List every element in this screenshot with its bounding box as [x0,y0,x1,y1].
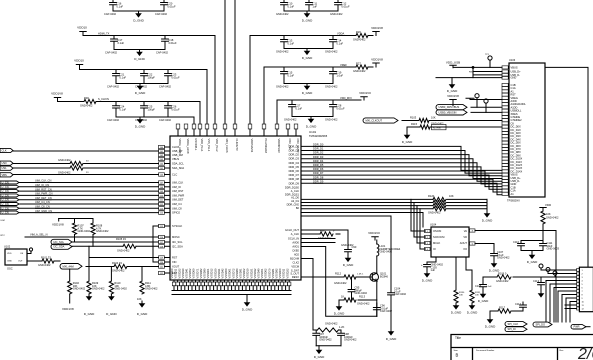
svg-text:R115: R115 [411,122,418,126]
net flag USB_DM [436,110,467,115]
ground [133,11,144,23]
svg-text:VSSD01: VSSD01 [206,268,210,279]
wire [19,182,159,184]
svg-text:UIM_GND_CN: UIM_GND_CN [35,209,52,213]
svg-text:DDR_D4: DDR_D4 [313,159,324,163]
svg-text:C112: C112 [515,302,522,306]
svg-text:D_GND: D_GND [334,312,345,316]
svg-text:C113: C113 [533,279,540,283]
svg-text:DDR_D2: DDR_D2 [313,151,324,155]
label right pins lower [285,228,300,279]
svg-text:GND-0402: GND-0402 [341,243,354,247]
wire [113,10,164,12]
resistor R27 [356,65,368,69]
svg-text:UIM_IO: UIM_IO [172,185,181,189]
capacitor C107 [491,251,498,262]
svg-text:GND-0402: GND-0402 [58,171,71,175]
capacitor C22 [141,70,148,84]
svg-text:HDMI_TX: HDMI_TX [98,31,110,35]
svg-text:R101 33: R101 33 [41,256,51,260]
wire [113,0,164,3]
pin 115 [159,224,183,228]
svg-text:S_OUT: S_OUT [290,272,299,276]
resistor R120 [433,197,446,201]
svg-text:VDDA_A1V8: VDDA_A1V8 [178,139,182,155]
svg-text:DDR_D3: DDR_D3 [313,155,324,159]
svg-text:GND-0402: GND-0402 [325,85,338,89]
resistor R102 [68,281,72,294]
capacitor C16 [110,3,117,12]
svg-text:UIM_CLK: UIM_CLK [172,181,184,185]
svg-text:GND-0402: GND-0402 [145,287,158,291]
svg-text:VSSD41: VSSD41 [185,268,189,279]
svg-text:A1_D0: A1_D0 [291,196,299,200]
wire [284,48,333,50]
svg-text:GND-0402: GND-0402 [276,50,289,54]
svg-text:DDR_DQS1: DDR_DQS1 [285,192,300,196]
svg-text:VIM_A_SEL_N: VIM_A_SEL_N [30,233,48,237]
svg-text:GPIO2: GPIO2 [172,211,180,215]
svg-text:DDR_D6: DDR_D6 [289,169,300,173]
net flag CLKOUT [0,148,13,152]
svg-text:CAP-0402: CAP-0402 [159,118,172,122]
svg-text:U_CN: U_CN [2,181,9,185]
svg-text:0.01uF: 0.01uF [169,41,177,45]
wire [116,83,168,85]
svg-text:0.1uF: 0.1uF [288,73,295,77]
svg-text:B2: B2 [296,206,300,210]
wire [13,174,159,176]
wire [301,242,335,244]
pin 117 [159,240,184,244]
svg-text:RTC: RTC [1,235,6,237]
svg-text:VDD: VDD [545,203,552,207]
net flag I2C_SDA [51,244,72,249]
wire DDR bus [301,163,502,181]
capacitor C106 [480,277,487,292]
resistor R106 [497,275,511,279]
svg-text:VDD_USB: VDD_USB [446,61,460,65]
svg-text:DDR_D2: DDR_D2 [289,153,300,157]
net flag UIM_C8_CN [0,206,19,210]
svg-text:0.1uF: 0.1uF [117,4,124,8]
svg-text:CAP-0402: CAP-0402 [380,309,393,313]
svg-text:R27: R27 [356,62,361,66]
ground [489,261,500,273]
op-amp U104 body [431,227,469,257]
svg-text:CAP-0402: CAP-0402 [105,51,118,55]
svg-text:VSS_PLL1: VSS_PLL1 [207,139,211,152]
svg-text:AOUT: AOUT [460,241,468,245]
svg-text:AD2: AD2 [294,253,300,257]
svg-text:AVD0: AVD0 [292,241,299,245]
wire DDR bus [301,175,502,189]
wire [541,269,577,271]
pin 100 [159,145,180,149]
wire tap [411,199,426,231]
svg-text:VDDMPU10: VDDMPU10 [277,139,281,154]
svg-text:VDD10: VDD10 [77,26,87,30]
ground [386,329,397,341]
resistor R131 [470,290,474,303]
svg-text:CAP-0402: CAP-0402 [155,12,168,16]
wire [570,302,577,323]
capacitor C10 [281,3,288,12]
svg-text:DDR_D0: DDR_D0 [289,144,300,148]
svg-text:GND-0402: GND-0402 [117,249,130,253]
pin 30 [176,124,182,154]
svg-text:CLK2: CLK2 [293,261,300,265]
svg-text:VDD1V8: VDD1V8 [371,26,383,30]
svg-text:2/6: 2/6 [577,346,593,360]
wire [249,36,251,125]
svg-text:GND-0402: GND-0402 [73,287,86,291]
wire [376,256,378,273]
svg-text:0.1uF: 0.1uF [118,41,125,45]
ground [538,291,545,298]
resistor R40 [70,161,83,165]
svg-text:D_GND: D_GND [527,260,538,264]
svg-text:0.1uF: 0.1uF [288,41,295,45]
ground [134,50,145,62]
svg-text:CKE0: CKE0 [292,249,299,253]
pin 36 [223,124,229,153]
pin 33 [198,124,204,152]
svg-text:VSSD72: VSSD72 [231,268,235,279]
wire [301,208,487,210]
ground [137,301,148,316]
wire [276,100,278,124]
svg-text:D_GND: D_GND [133,19,144,23]
svg-text:D_GND: D_GND [242,308,253,312]
ground [527,253,538,265]
wire DDR bus [301,146,502,170]
svg-text:DDR_D5: DDR_D5 [289,165,300,169]
svg-text:VDD1V0: VDD1V0 [359,91,371,95]
svg-text:U103: U103 [509,58,516,62]
wire [19,190,159,192]
svg-text:CAP-0402: CAP-0402 [156,51,169,55]
wire [531,251,533,253]
wire DDR bus [301,151,502,174]
ground [135,117,146,129]
svg-text:VSSD50: VSSD50 [224,268,228,279]
capacitor C21 [113,70,120,84]
svg-text:GND-0402: GND-0402 [112,269,125,273]
svg-text:UIM_IO_CN: UIM_IO_CN [35,183,49,187]
wire DDR bus [301,171,502,187]
svg-text:10K: 10K [431,115,436,119]
pin 37 [233,124,239,151]
wire [586,326,590,328]
resistor R116 [542,210,544,211]
net flag MXI_CLK [363,118,398,123]
wire [19,203,159,205]
pin 102 [159,153,183,157]
svg-text:U_CN: U_CN [2,206,9,210]
ground [314,348,325,360]
svg-text:D_GND: D_GND [422,279,433,283]
pin 31 [184,124,190,154]
svg-text:UIM_C4_CN: UIM_C4_CN [35,200,50,204]
svg-text:GND-0402: GND-0402 [497,256,510,260]
resistor R117 [498,309,511,313]
svg-text:GND-0402: GND-0402 [78,229,91,233]
capacitor C110 [518,241,525,251]
svg-text:0.01uF: 0.01uF [172,75,180,79]
svg-text:0.01uF: 0.01uF [168,4,176,8]
resistor R112 [344,275,356,279]
wire [301,276,372,278]
capacitor C15 [281,67,288,84]
testpoint TP2 [475,94,479,98]
pin 5 [470,229,476,232]
net flag UIM_IO_CN [0,185,19,189]
power VDD1V8 [51,92,63,102]
wire [565,304,577,306]
wire [301,198,487,200]
wire [284,10,338,12]
pin 122 [159,271,178,275]
ground [467,303,478,315]
capacitor C111 [540,241,547,251]
svg-text:VREF: VREF [340,63,347,67]
wire [455,257,457,290]
svg-text:U_CN: U_CN [2,211,9,215]
op-amp U101 body [170,136,301,280]
svg-text:U_CN: U_CN [2,185,9,189]
wire [466,257,472,290]
net flag UIM_RST_CN [0,189,19,193]
wire [339,299,377,301]
svg-text:1uF: 1uF [431,268,436,272]
connector J1 pins [577,269,580,311]
resistor R90 [320,232,333,236]
svg-text:Title: Title [455,336,461,340]
svg-text:GND-0402: GND-0402 [357,302,370,306]
capacitor C18 [162,36,169,50]
svg-text:VDD1V8: VDD1V8 [447,94,459,98]
wire [540,289,542,291]
wire [313,329,341,331]
svg-text:1K: 1K [341,295,344,299]
svg-text:U101: U101 [309,130,317,134]
svg-text:GCLK_IN: GCLK_IN [288,237,299,241]
pin 41 [286,124,292,150]
svg-text:VDD1V8: VDD1V8 [51,92,63,96]
wire [69,269,71,281]
svg-text:1uF: 1uF [313,4,318,8]
wire [376,240,378,244]
svg-text:CAP-0402: CAP-0402 [159,85,172,89]
svg-text:B: B [456,353,459,358]
svg-text:SPI_DI: SPI_DI [508,327,516,331]
wire [88,258,90,282]
svg-text:VSSD52: VSSD52 [188,268,192,279]
wire [562,295,577,323]
svg-text:VDDA: VDDA [337,31,344,35]
svg-text:D_GND: D_GND [306,125,317,129]
transistor Q101 [370,272,389,282]
svg-text:A_CLK: A_CLK [291,232,299,236]
wire [72,241,159,243]
svg-text:10K: 10K [475,295,479,297]
pin 116 [159,235,180,239]
svg-text:GND-0402: GND-0402 [58,158,71,162]
svg-text:GND-0402: GND-0402 [353,38,366,42]
wire [436,77,502,79]
ground [422,271,433,283]
wire HDMI rail [83,36,215,125]
svg-text:D_GND: D_GND [302,56,313,60]
wire DDR bus [301,155,502,176]
svg-text:D_GND: D_GND [447,89,458,93]
svg-text:GND-0402: GND-0402 [431,121,444,125]
svg-text:GND-0402: GND-0402 [96,229,109,233]
capacitor C95 [348,277,355,300]
svg-text:100pF: 100pF [148,107,156,111]
svg-text:VDD: VDD [7,253,12,255]
svg-text:OE: OE [20,253,24,255]
wire [521,250,543,252]
wire [402,120,502,122]
svg-text:US1: US1 [2,166,8,170]
net flag USB0 [0,161,13,165]
wire [338,300,340,304]
resistor R103 [87,281,91,294]
svg-text:VDDA_A1V8: VDDA_A1V8 [186,139,190,155]
wire [427,257,436,264]
svg-text:GND-0402: GND-0402 [353,69,366,73]
svg-text:USB_DM: USB_DM [172,153,183,157]
net flag I2C_SCL [51,239,72,244]
svg-text:R117: R117 [499,306,506,310]
svg-text:CAP-0402: CAP-0402 [104,12,117,16]
ground [302,11,313,23]
wire [292,116,333,118]
capacitor C96 [373,303,380,316]
svg-text:DDR_D8: DDR_D8 [313,175,324,179]
power VDD [540,203,552,210]
svg-text:VSSD00: VSSD00 [278,268,282,279]
svg-text:XOUT: XOUT [172,265,180,269]
svg-text:MCLK: MCLK [433,241,440,245]
wire [472,67,474,77]
svg-text:1.2K: 1.2K [339,325,345,329]
svg-text:SPI_DO: SPI_DO [536,323,546,327]
svg-text:VSSD22: VSSD22 [177,268,181,279]
capacitor C12 [335,3,342,12]
wire [471,111,502,113]
pin 112 [159,202,183,206]
capacitor C103 [424,264,431,271]
svg-text:VBUS: VBUS [511,65,518,69]
svg-text:N_TRST: N_TRST [433,128,442,130]
svg-text:VBS: VBS [2,173,7,177]
wire [473,72,502,75]
pin 111 [159,198,184,202]
net flag 44MHZ [60,264,82,270]
svg-text:VSSD92: VSSD92 [275,268,279,279]
svg-text:VSSD32: VSSD32 [253,268,257,279]
wire rail [58,102,201,125]
svg-text:U_CN: U_CN [2,198,9,202]
power VDD1V8 [447,94,459,103]
svg-text:D_GND: D_GND [302,91,313,95]
capacitor C113 [538,277,545,289]
svg-text:0.1uF: 0.1uF [296,106,303,110]
svg-text:R106 0: R106 0 [498,272,507,276]
pin 35 [213,124,219,152]
svg-text:VSSD91: VSSD91 [239,268,243,279]
svg-text:DDR_D0: DDR_D0 [313,143,324,147]
wire [301,247,377,317]
svg-text:OUT: OUT [18,261,23,263]
svg-text:CLKOUT0: CLKOUT0 [235,139,239,152]
pin 120 [159,260,177,264]
svg-text:10K: 10K [449,194,454,198]
svg-text:MXI_44M: MXI_44M [63,264,74,268]
pin 107 [159,181,184,185]
svg-text:R30: R30 [84,96,89,100]
pin 118 [159,244,184,248]
label right pins middle [285,186,300,210]
capacitor C27 [289,100,296,117]
svg-text:GND-0402: GND-0402 [325,50,338,54]
svg-text:VSSD10: VSSD10 [246,268,250,279]
wire [489,311,491,317]
ground [306,117,317,129]
oscillator U102 [4,245,33,271]
net flag UIM_C4_CN [0,202,19,206]
wire tap [417,206,426,243]
svg-text:UIM_C8_CN: UIM_C8_CN [35,205,50,209]
svg-text:+: + [421,263,423,267]
net flag USB_DP [436,105,467,110]
ground [482,211,493,223]
wire [301,238,335,240]
svg-text:GND-0402: GND-0402 [546,216,559,220]
net flag PWR [571,324,586,329]
svg-text:DDR_D1: DDR_D1 [289,149,300,153]
ground [334,304,345,316]
net flag UIM_GND_CN [0,211,19,215]
resistor R103b [419,118,429,122]
wire [89,246,159,257]
svg-text:VDD1V0: VDD1V0 [368,231,380,235]
pin 114 [159,211,181,215]
wire [451,78,453,82]
net flag VBUS [0,173,13,177]
svg-text:VSSD90: VSSD90 [203,268,207,279]
svg-text:DDR_D4: DDR_D4 [289,161,300,165]
svg-text:IO: IO [433,247,436,251]
ground [478,292,489,304]
pin 39 [262,124,268,154]
svg-text:DDR_D3: DDR_D3 [289,157,300,161]
bus bottom pins [170,268,291,295]
svg-text:D_GND: D_GND [343,263,354,267]
wire [453,66,502,68]
svg-text:VSSD51: VSSD51 [260,268,264,279]
testpoint TP6 [553,271,557,275]
svg-text:D_GND: D_GND [478,299,489,303]
svg-text:0.1uF: 0.1uF [120,107,127,111]
wire [470,99,502,101]
resistor R122 [433,204,446,208]
svg-text:100pF: 100pF [148,75,156,79]
wire [521,310,523,312]
